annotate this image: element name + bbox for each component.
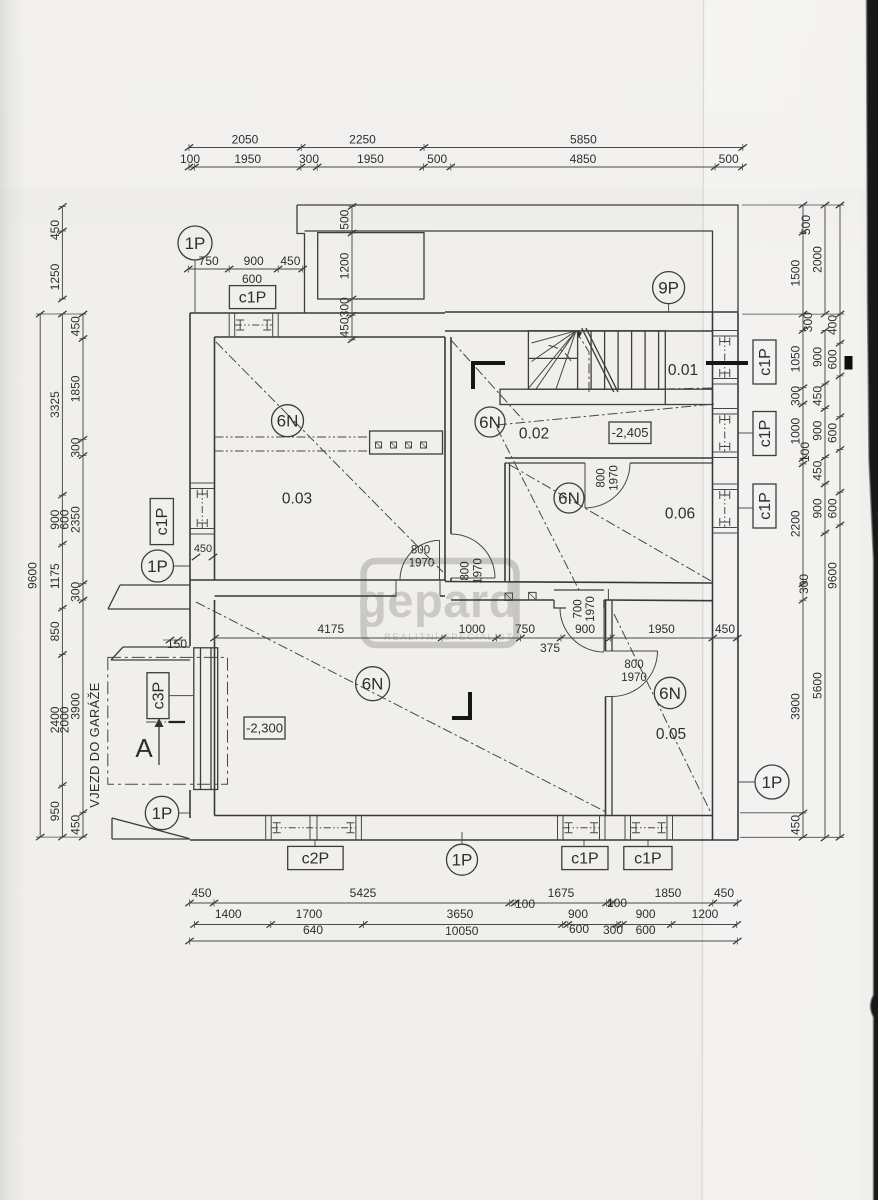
- svg-text:c1P: c1P: [757, 348, 774, 376]
- svg-text:450: 450: [280, 254, 300, 268]
- svg-text:500: 500: [719, 152, 739, 166]
- svg-text:9600: 9600: [826, 562, 840, 589]
- svg-text:1400: 1400: [215, 907, 242, 921]
- svg-text:1P: 1P: [452, 851, 473, 870]
- svg-text:600: 600: [569, 922, 589, 936]
- svg-text:100: 100: [607, 896, 627, 910]
- svg-text:900: 900: [575, 622, 595, 636]
- svg-text:c2P: c2P: [302, 850, 330, 867]
- svg-text:0.05: 0.05: [656, 726, 686, 743]
- svg-text:2250: 2250: [349, 133, 376, 147]
- svg-text:850: 850: [48, 621, 62, 641]
- svg-text:2200: 2200: [789, 510, 803, 537]
- svg-text:c1P: c1P: [757, 420, 774, 448]
- svg-text:5425: 5425: [350, 886, 377, 900]
- svg-text:1050: 1050: [789, 345, 803, 372]
- svg-text:450: 450: [69, 316, 83, 336]
- svg-text:450: 450: [69, 814, 83, 834]
- svg-text:9P: 9P: [658, 278, 679, 297]
- svg-text:300: 300: [299, 152, 319, 166]
- svg-text:3325: 3325: [48, 391, 62, 418]
- svg-text:1200: 1200: [338, 252, 352, 279]
- svg-text:1970: 1970: [609, 465, 621, 491]
- svg-text:600: 600: [242, 272, 262, 286]
- svg-text:5850: 5850: [570, 133, 597, 147]
- svg-text:900: 900: [244, 254, 264, 268]
- svg-text:2000: 2000: [811, 246, 825, 273]
- svg-text:450: 450: [194, 543, 212, 555]
- svg-text:c1P: c1P: [154, 508, 171, 536]
- svg-text:500: 500: [427, 152, 447, 166]
- svg-text:1250: 1250: [48, 263, 62, 290]
- svg-text:450: 450: [811, 460, 825, 480]
- svg-text:750: 750: [515, 622, 535, 636]
- svg-text:0.01: 0.01: [668, 362, 698, 379]
- svg-text:300: 300: [801, 312, 815, 332]
- svg-text:1000: 1000: [459, 622, 486, 636]
- svg-text:1500: 1500: [789, 260, 803, 287]
- svg-text:800: 800: [596, 468, 608, 487]
- svg-text:1970: 1970: [621, 672, 647, 684]
- svg-text:300: 300: [69, 437, 83, 457]
- svg-text:6N: 6N: [277, 412, 299, 431]
- svg-text:450: 450: [48, 220, 62, 240]
- svg-text:700: 700: [573, 599, 585, 618]
- svg-text:400: 400: [826, 315, 840, 335]
- svg-text:1970: 1970: [585, 596, 597, 622]
- svg-text:1950: 1950: [234, 152, 261, 166]
- svg-text:0.02: 0.02: [519, 426, 549, 443]
- svg-text:c3P: c3P: [150, 682, 167, 710]
- svg-text:1850: 1850: [69, 375, 83, 402]
- svg-text:150: 150: [167, 637, 187, 651]
- svg-text:A: A: [135, 733, 153, 763]
- svg-text:1P: 1P: [147, 557, 168, 576]
- svg-text:1P: 1P: [185, 234, 206, 253]
- svg-text:1950: 1950: [357, 152, 384, 166]
- svg-text:6N: 6N: [479, 413, 501, 432]
- svg-text:3900: 3900: [789, 693, 803, 720]
- svg-text:2350: 2350: [69, 506, 83, 533]
- svg-text:1970: 1970: [409, 558, 435, 570]
- svg-text:6N: 6N: [659, 684, 681, 703]
- svg-text:1P: 1P: [762, 773, 783, 792]
- svg-text:500: 500: [338, 209, 352, 229]
- svg-text:450: 450: [714, 886, 734, 900]
- svg-text:100: 100: [515, 897, 535, 911]
- svg-text:300: 300: [603, 923, 623, 937]
- svg-text:600: 600: [826, 498, 840, 518]
- svg-text:900: 900: [636, 907, 656, 921]
- svg-text:375: 375: [540, 641, 560, 655]
- svg-text:800: 800: [460, 561, 472, 580]
- svg-text:450: 450: [811, 386, 825, 406]
- svg-text:100: 100: [798, 442, 812, 462]
- svg-text:2050: 2050: [232, 133, 259, 147]
- svg-text:6N: 6N: [558, 489, 580, 508]
- svg-text:c1P: c1P: [634, 850, 662, 867]
- svg-text:600: 600: [826, 423, 840, 443]
- svg-text:900: 900: [811, 347, 825, 367]
- svg-text:1700: 1700: [296, 907, 323, 921]
- svg-text:3900: 3900: [69, 693, 83, 720]
- svg-text:300: 300: [797, 574, 811, 594]
- svg-text:c1P: c1P: [571, 850, 599, 867]
- svg-text:5600: 5600: [811, 672, 825, 699]
- svg-text:VJEZD DO GARÁŽE: VJEZD DO GARÁŽE: [87, 682, 102, 807]
- svg-text:600: 600: [826, 349, 840, 369]
- svg-text:-2,300: -2,300: [246, 721, 283, 736]
- svg-text:640: 640: [303, 923, 323, 937]
- svg-text:100: 100: [180, 152, 200, 166]
- svg-text:450: 450: [789, 815, 803, 835]
- svg-text:300: 300: [789, 386, 803, 406]
- svg-text:450: 450: [338, 317, 352, 337]
- svg-text:3650: 3650: [447, 907, 474, 921]
- svg-text:1850: 1850: [655, 886, 682, 900]
- svg-text:600: 600: [636, 923, 656, 937]
- svg-text:1200: 1200: [692, 907, 719, 921]
- svg-text:1P: 1P: [152, 804, 173, 823]
- svg-text:450: 450: [191, 886, 211, 900]
- svg-text:900: 900: [811, 498, 825, 518]
- svg-text:1950: 1950: [648, 622, 675, 636]
- svg-text:500: 500: [799, 215, 813, 235]
- svg-text:900: 900: [811, 420, 825, 440]
- svg-text:4175: 4175: [317, 622, 344, 636]
- svg-text:750: 750: [199, 254, 219, 268]
- svg-text:800: 800: [624, 659, 643, 671]
- svg-text:4850: 4850: [570, 152, 597, 166]
- svg-text:1000: 1000: [789, 418, 803, 445]
- svg-text:0.03: 0.03: [282, 491, 312, 508]
- svg-text:1970: 1970: [473, 558, 485, 584]
- svg-text:300: 300: [69, 581, 83, 601]
- svg-text:c1P: c1P: [757, 492, 774, 520]
- svg-text:800: 800: [411, 545, 430, 557]
- svg-text:950: 950: [48, 801, 62, 821]
- svg-text:9600: 9600: [26, 562, 40, 589]
- svg-text:450: 450: [715, 622, 735, 636]
- svg-text:6N: 6N: [362, 675, 384, 694]
- svg-text:1175: 1175: [48, 563, 62, 589]
- svg-text:0.06: 0.06: [665, 506, 695, 523]
- svg-text:1675: 1675: [548, 886, 575, 900]
- svg-text:-2,405: -2,405: [612, 425, 649, 440]
- svg-text:900: 900: [568, 907, 588, 921]
- svg-text:c1P: c1P: [239, 290, 267, 307]
- svg-text:REALITNÍ SPECIALISTA: REALITNÍ SPECIALISTA: [384, 632, 521, 643]
- svg-text:10050: 10050: [445, 924, 479, 938]
- svg-text:300: 300: [338, 297, 352, 317]
